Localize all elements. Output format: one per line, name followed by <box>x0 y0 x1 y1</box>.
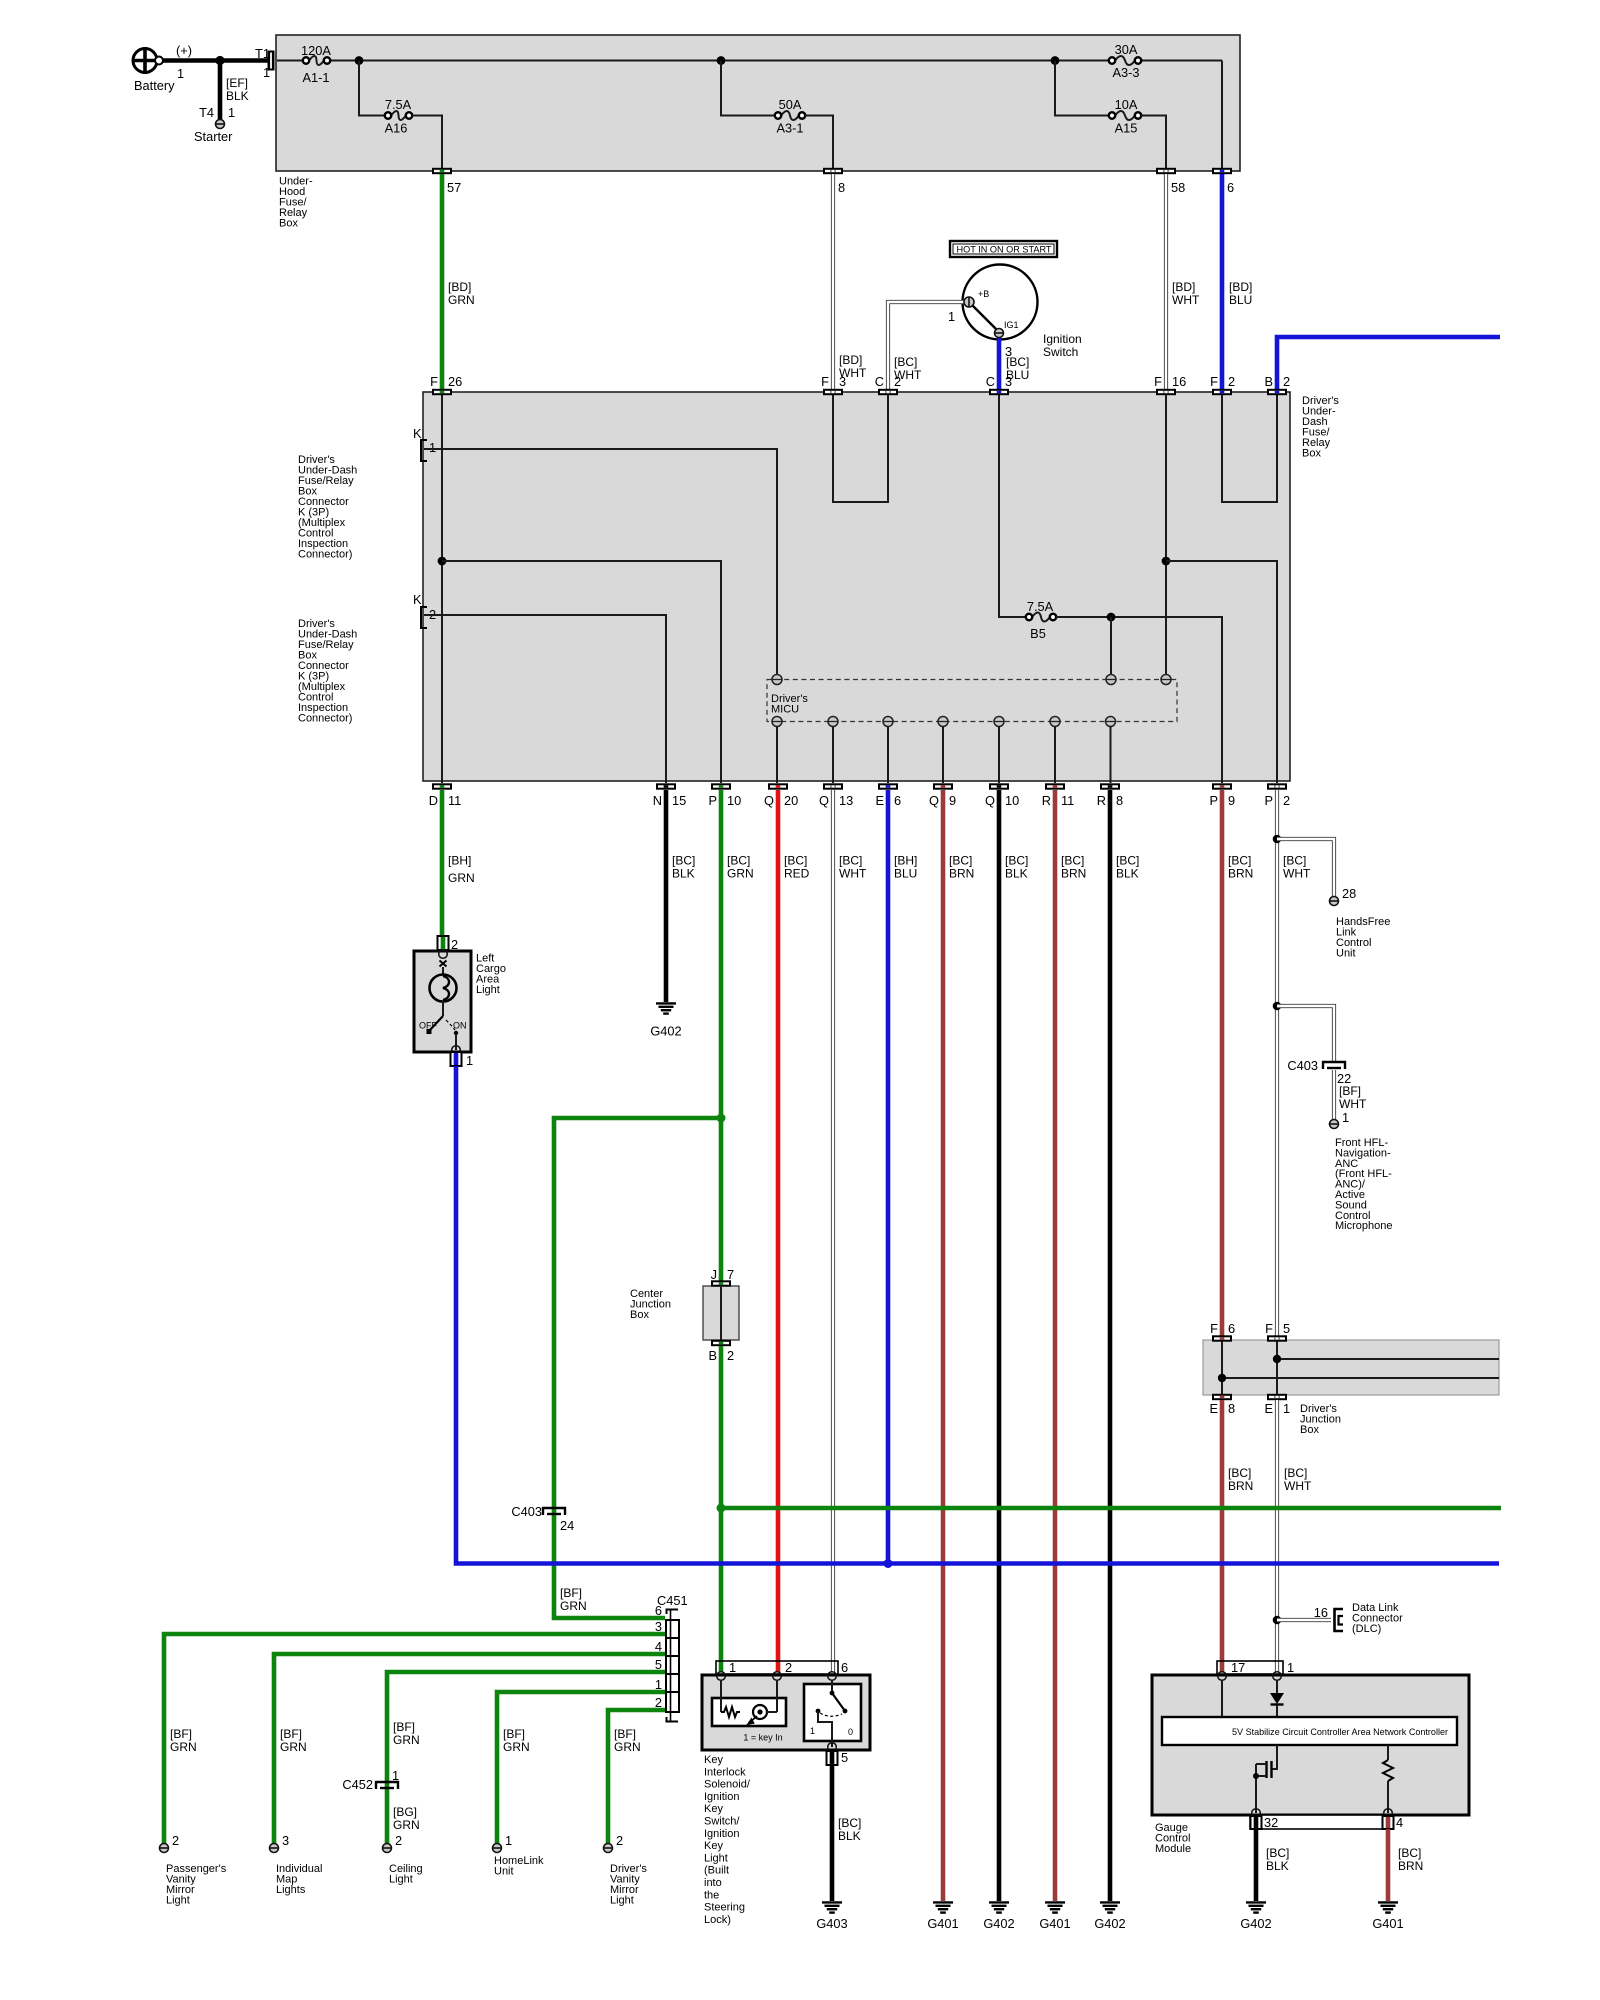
connector cargo pin 2 <box>438 936 459 952</box>
connector pin F 3 <box>821 374 846 395</box>
svg-text:GRN: GRN <box>393 1818 420 1832</box>
wire +B to C2 [BC] WHT <box>888 302 965 389</box>
svg-text:Microphone: Microphone <box>1335 1220 1392 1232</box>
svg-text:WHT: WHT <box>1284 1479 1312 1493</box>
svg-text:9: 9 <box>1228 793 1235 808</box>
svg-text:Box: Box <box>1300 1424 1319 1436</box>
wire IG1 to C3 [BC] BLU <box>999 336 1029 389</box>
svg-text:WHT: WHT <box>1172 293 1200 307</box>
svg-text:32: 32 <box>1264 1815 1278 1830</box>
svg-text:2: 2 <box>1228 374 1235 389</box>
gauge pin circles bottom <box>1252 1809 1393 1818</box>
connector pin Q 9 <box>929 783 956 808</box>
svg-text:2: 2 <box>451 937 458 952</box>
wire C3 to fuse B5 <box>999 395 1026 617</box>
svg-text:GRN: GRN <box>727 867 754 881</box>
svg-text:6: 6 <box>894 793 901 808</box>
connector C451 <box>655 1593 688 1722</box>
svg-text:5: 5 <box>655 1657 662 1672</box>
pin 58 <box>1156 168 1185 195</box>
svg-text:the: the <box>704 1889 719 1901</box>
wire K2 to N15 <box>424 615 666 783</box>
wire Q9 to G401 [BC] BRN <box>943 790 974 1901</box>
svg-text:Key: Key <box>704 1840 723 1852</box>
svg-text:[BF]: [BF] <box>1339 1084 1361 1098</box>
svg-text:MICU: MICU <box>771 704 799 716</box>
svg-text:Unit: Unit <box>494 1866 514 1878</box>
svg-text:10: 10 <box>1005 793 1019 808</box>
svg-text:F: F <box>1154 374 1162 389</box>
ground G403 <box>816 1902 847 1931</box>
svg-text:GRN: GRN <box>280 1740 307 1754</box>
wire C403 to microphone [BF] WHT <box>1334 1070 1367 1125</box>
svg-text:GRN: GRN <box>503 1740 530 1754</box>
terminal homelink pin 1 <box>493 1844 502 1853</box>
svg-text:Box: Box <box>279 218 298 230</box>
svg-text:Key: Key <box>704 1803 723 1815</box>
svg-text:2: 2 <box>655 1695 662 1710</box>
connector K pin 2 <box>413 592 436 628</box>
junction P10 branch <box>717 1114 726 1123</box>
svg-text:[BF]: [BF] <box>170 1727 192 1741</box>
svg-text:BLK: BLK <box>1005 867 1028 881</box>
key interlock solenoid/lamp <box>712 1680 786 1743</box>
svg-text:1: 1 <box>948 309 955 324</box>
transistor Q1 (MOSFET) <box>1253 1745 1277 1813</box>
svg-text:WHT: WHT <box>839 867 867 881</box>
svg-text:13: 13 <box>839 793 853 808</box>
svg-text:WHT: WHT <box>1339 1097 1367 1111</box>
svg-text:G401: G401 <box>1039 1916 1070 1931</box>
svg-text:GRN: GRN <box>448 871 475 885</box>
svg-text:G403: G403 <box>816 1916 847 1931</box>
wire branch to fuse A16 <box>359 61 385 116</box>
svg-text:5: 5 <box>841 1750 848 1765</box>
svg-text:Light: Light <box>166 1895 190 1907</box>
svg-text:B: B <box>708 1348 717 1363</box>
svg-text:1: 1 <box>228 105 235 120</box>
svg-text:Battery: Battery <box>134 78 175 93</box>
svg-text:[BF]: [BF] <box>614 1727 636 1741</box>
svg-text:Switch/: Switch/ <box>704 1816 740 1828</box>
wire main bus in under-hood box <box>277 61 1222 169</box>
MICU pins bottom <box>772 717 1116 727</box>
gauge connector row bottom <box>1250 1815 1391 1829</box>
wire fuse A3-1 to pin 8 <box>805 116 833 169</box>
connector pin B 2 <box>1264 374 1290 395</box>
wire Q13 to key interlock [BC] WHT <box>833 790 867 1672</box>
gauge pin circles top <box>1218 1672 1282 1681</box>
connector pin C 2 <box>875 374 901 395</box>
svg-text:GRN: GRN <box>170 1740 197 1754</box>
key interlock pin circles <box>717 1672 837 1681</box>
connector C452 pin 1 <box>342 1768 399 1792</box>
left cargo area light <box>414 951 506 1052</box>
wire C452 to ceiling light [BG] GRN <box>393 1805 420 1848</box>
svg-text:[BC]: [BC] <box>839 854 862 868</box>
junction F16/P2 <box>1162 557 1171 566</box>
svg-text:1: 1 <box>429 440 436 455</box>
svg-text:[BC]: [BC] <box>1006 355 1029 369</box>
svg-text:WHT: WHT <box>1283 867 1311 881</box>
svg-text:[BC]: [BC] <box>1061 854 1084 868</box>
connector pin E 6 <box>875 783 901 808</box>
ground G401 (R11) <box>1039 1902 1070 1931</box>
junction P2/handsfree <box>1273 835 1282 844</box>
svg-text:1: 1 <box>1342 1110 1349 1125</box>
svg-text:3: 3 <box>282 1833 289 1848</box>
handsfree link control unit <box>1336 916 1390 960</box>
wire pin 32 to G402 [BC] BLK <box>1256 1829 1289 1901</box>
connector pin R 11 <box>1042 783 1075 808</box>
wire D11 to cargo light [BH] GRN <box>442 790 475 936</box>
wire fuse A15 to pin 58 <box>1141 116 1166 169</box>
svg-text:F: F <box>1210 374 1218 389</box>
junction F6 bus <box>1218 1374 1226 1382</box>
svg-text:1: 1 <box>392 1768 399 1783</box>
svg-text:50A: 50A <box>779 97 802 112</box>
svg-text:BLK: BLK <box>1116 867 1139 881</box>
svg-text:120A: 120A <box>301 43 331 58</box>
connector gauge pin 32 <box>1251 1815 1279 1830</box>
svg-text:[BG]: [BG] <box>393 1805 417 1819</box>
5V stabilize circuit block <box>1162 1717 1457 1745</box>
svg-text:6: 6 <box>655 1603 662 1618</box>
svg-text:2: 2 <box>1283 793 1290 808</box>
svg-text:into: into <box>704 1877 722 1889</box>
svg-text:7.5A: 7.5A <box>385 97 412 112</box>
svg-text:2: 2 <box>785 1660 792 1675</box>
svg-text:Light: Light <box>389 1874 413 1886</box>
wire branch to handsfree unit <box>1277 839 1334 896</box>
svg-text:BRN: BRN <box>1228 867 1253 881</box>
svg-text:3: 3 <box>655 1619 662 1634</box>
svg-text:K: K <box>413 426 422 441</box>
svg-text:8: 8 <box>1228 1401 1235 1416</box>
svg-text:[BC]: [BC] <box>1266 1846 1289 1860</box>
svg-text:[BC]: [BC] <box>1005 854 1028 868</box>
wire B2 feed [BD] BLU <box>1277 337 1500 389</box>
fuse 7.5A A16 <box>385 97 413 136</box>
svg-text:24: 24 <box>560 1518 574 1533</box>
svg-text:[BC]: [BC] <box>1284 1466 1307 1480</box>
svg-text:T1: T1 <box>255 46 270 61</box>
svg-text:Box: Box <box>630 1309 649 1321</box>
wire dome green bus [BF] GRN <box>721 1506 1501 1511</box>
cargo light bulb <box>430 950 457 1016</box>
junction E1/DLC <box>1273 1616 1282 1625</box>
homelink unit <box>494 1855 544 1878</box>
svg-text:G402: G402 <box>1240 1916 1271 1931</box>
pin 8 <box>823 168 845 195</box>
svg-text:[BD]: [BD] <box>1172 280 1195 294</box>
wire fuse B5 to P9 <box>1056 617 1222 783</box>
wire F16 to MICU <box>1165 395 1167 675</box>
svg-text:(+): (+) <box>176 43 192 58</box>
center junction box <box>630 1286 739 1340</box>
svg-text:11: 11 <box>448 793 461 808</box>
svg-text:Steering: Steering <box>704 1902 745 1914</box>
connector pin Q 20 <box>764 783 798 808</box>
wire F5 to E1 inside <box>1276 1341 1278 1394</box>
svg-text:[BC]: [BC] <box>894 355 917 369</box>
svg-text:1: 1 <box>1283 1401 1290 1416</box>
svg-text:16: 16 <box>1172 374 1186 389</box>
svg-text:(DLC): (DLC) <box>1352 1623 1381 1635</box>
svg-text:0: 0 <box>848 1727 853 1737</box>
fuse 120A A1-1 <box>301 43 331 85</box>
svg-text:B: B <box>1264 374 1273 389</box>
svg-text:[BD]: [BD] <box>839 353 862 367</box>
svg-text:BRN: BRN <box>1398 1859 1423 1873</box>
svg-text:1 = key In: 1 = key In <box>743 1733 782 1743</box>
wire Q20 to key interlock [BC] RED <box>778 790 810 1672</box>
svg-text:IG1: IG1 <box>1004 320 1019 330</box>
svg-text:OFF: OFF <box>419 1021 437 1031</box>
svg-text:Module: Module <box>1155 1843 1191 1855</box>
junction node to A16 <box>355 56 364 65</box>
svg-text:T4: T4 <box>199 105 214 120</box>
wire branch to C403 24 [BF] GRN <box>554 1118 721 1618</box>
svg-text:F: F <box>1210 1321 1218 1336</box>
svg-text:30A: 30A <box>1115 42 1138 57</box>
connector pin B 2 <box>708 1340 734 1363</box>
svg-text:[BF]: [BF] <box>503 1727 525 1741</box>
svg-text:G402: G402 <box>983 1916 1014 1931</box>
connector pin P 10 <box>708 783 741 808</box>
connector C403 pin 22 <box>1287 1058 1351 1086</box>
svg-text:Q: Q <box>929 793 939 808</box>
svg-text:[BC]: [BC] <box>1116 854 1139 868</box>
wire F2 to B2 <box>1222 395 1277 502</box>
svg-text:Interlock: Interlock <box>704 1766 746 1778</box>
wire branch to fuse A3-1 <box>721 61 775 116</box>
wire F26 to D11 <box>441 395 443 783</box>
wire fuse A16 to pin 57 <box>412 116 442 169</box>
svg-text:1: 1 <box>263 65 270 80</box>
terminal IG1 <box>995 329 1004 338</box>
ignition switch <box>963 265 1082 360</box>
wire junction box bus 1 <box>1277 1358 1499 1360</box>
terminal +B <box>964 297 974 307</box>
svg-text:2: 2 <box>727 1348 734 1363</box>
svg-text:G401: G401 <box>1372 1916 1403 1931</box>
wire K1 to MICU <box>424 449 777 675</box>
svg-text:+B: +B <box>978 289 989 299</box>
svg-text:2: 2 <box>172 1833 179 1848</box>
connector pin F 2 <box>1210 374 1235 395</box>
gauge control module <box>1152 1675 1469 1855</box>
svg-text:BLK: BLK <box>838 1829 861 1843</box>
svg-text:1: 1 <box>505 1833 512 1848</box>
svg-text:GRN: GRN <box>560 1599 587 1613</box>
connector K (3P) label 2 <box>298 618 357 725</box>
svg-text:26: 26 <box>448 374 462 389</box>
svg-text:9: 9 <box>949 793 956 808</box>
key interlock solenoid/ignition key switch unit <box>702 1675 870 1750</box>
ground G402 (R8) <box>1094 1902 1125 1931</box>
connector pin J 7 <box>711 1267 735 1287</box>
svg-text:E: E <box>1209 1401 1218 1416</box>
svg-text:ON: ON <box>453 1021 467 1031</box>
ceiling light <box>389 1863 423 1886</box>
ground G402 (gauge) <box>1240 1902 1271 1931</box>
gauge connector row top <box>1217 1660 1294 1675</box>
svg-text:C403: C403 <box>1287 1058 1318 1073</box>
wire R8 to G402 [BC] BLK <box>1110 790 1139 1901</box>
key interlock ignition switch contacts <box>804 1680 861 1751</box>
svg-text:[BD]: [BD] <box>1229 280 1252 294</box>
svg-text:HOT IN ON OR START: HOT IN ON OR START <box>957 245 1052 256</box>
wire N15 to G402 [BC] BLK <box>666 790 695 1002</box>
connector pin E 8 <box>1209 1394 1235 1416</box>
svg-text:10A: 10A <box>1115 97 1138 112</box>
junction B5/MICU <box>1107 613 1116 622</box>
pin 57 <box>432 168 461 195</box>
fuse 50A A3-1 <box>775 97 805 136</box>
diode D1 <box>1270 1680 1284 1717</box>
svg-text:6: 6 <box>1227 180 1234 195</box>
svg-text:8: 8 <box>1116 793 1123 808</box>
wire pin 17 to 5V rect <box>1221 1680 1223 1717</box>
svg-text:A15: A15 <box>1115 121 1138 136</box>
svg-text:G402: G402 <box>1094 1916 1125 1931</box>
connector pin P 9 <box>1209 783 1235 808</box>
wire E1 to gauge pin 1 [BC] WHT <box>1277 1400 1312 1672</box>
svg-text:[BC]: [BC] <box>1228 854 1251 868</box>
svg-text:1: 1 <box>177 66 184 81</box>
connector pin F 6 <box>1210 1321 1235 1342</box>
svg-text:J: J <box>711 1267 717 1282</box>
svg-text:Key: Key <box>704 1754 723 1766</box>
svg-text:E: E <box>875 793 884 808</box>
junction E6/blue bus <box>884 1559 893 1568</box>
svg-text:[BC]: [BC] <box>838 1816 861 1830</box>
svg-text:F: F <box>821 374 829 389</box>
svg-text:A3-3: A3-3 <box>1112 65 1139 80</box>
junction P10/green bus <box>717 1504 726 1513</box>
wire pin 4 to G401 [BC] BRN <box>1388 1829 1423 1901</box>
connector K (3P) label 1 <box>298 454 357 561</box>
svg-text:2: 2 <box>894 374 901 389</box>
fuse 7.5A B5 <box>1026 599 1056 641</box>
connector pin Q 10 <box>985 783 1019 808</box>
svg-text:[BF]: [BF] <box>393 1720 415 1734</box>
svg-text:7: 7 <box>727 1267 734 1282</box>
svg-text:G401: G401 <box>927 1916 958 1931</box>
individual map lights <box>276 1863 322 1896</box>
svg-text:G402: G402 <box>650 1024 681 1039</box>
svg-text:Q: Q <box>819 793 829 808</box>
svg-text:A3-1: A3-1 <box>776 121 803 136</box>
svg-text:2: 2 <box>395 1833 402 1848</box>
connector pin E 1 <box>1264 1394 1290 1416</box>
svg-text:10: 10 <box>727 793 741 808</box>
junction P2/C403 <box>1273 1002 1282 1011</box>
connector T1 pin 1 <box>255 46 275 80</box>
wire F3 to C2 <box>833 395 888 502</box>
fuse 10A A15 <box>1109 97 1141 136</box>
wire to starter [EF] BLK <box>199 61 249 121</box>
svg-text:BLK: BLK <box>672 867 695 881</box>
svg-text:1: 1 <box>466 1053 473 1068</box>
hot in on or start label <box>950 241 1057 257</box>
terminal passenger vanity pin 2 <box>160 1844 169 1853</box>
driver's vanity mirror light <box>610 1863 647 1907</box>
svg-text:F: F <box>1265 1321 1273 1336</box>
svg-text:7.5A: 7.5A <box>1027 599 1054 614</box>
svg-text:Ignition: Ignition <box>704 1828 739 1840</box>
svg-text:[BH]: [BH] <box>894 854 917 868</box>
wire P10 to center junction box [BC] GRN <box>721 790 754 1281</box>
driver's under-dash fuse/relay box <box>423 392 1339 781</box>
terminal ceiling light pin 2 <box>383 1844 392 1853</box>
wire 6 to F2 [BD] BLU <box>1222 174 1252 389</box>
starter terminal <box>194 120 233 145</box>
svg-text:[BC]: [BC] <box>1228 1466 1251 1480</box>
svg-text:1: 1 <box>729 1660 736 1675</box>
wire 58 to F16 [BD] WHT <box>1166 174 1200 389</box>
svg-text:Connector): Connector) <box>298 549 352 561</box>
terminal handsfree pin 28 <box>1330 886 1357 906</box>
svg-text:Ignition: Ignition <box>1043 332 1082 346</box>
terminal map lights pin 3 <box>270 1844 279 1853</box>
wire junction to MICU <box>1110 617 1112 675</box>
svg-text:N: N <box>653 793 662 808</box>
svg-text:[BH]: [BH] <box>448 854 471 868</box>
svg-text:[BC]: [BC] <box>784 854 807 868</box>
svg-text:8: 8 <box>838 180 845 195</box>
svg-text:28: 28 <box>1342 886 1356 901</box>
key interlock connector row <box>716 1660 848 1675</box>
svg-text:[BC]: [BC] <box>727 854 750 868</box>
wire branch to DLC <box>1277 1605 1331 1620</box>
wire 57 to F26 [BD] GRN <box>442 174 475 389</box>
svg-text:Switch: Switch <box>1043 345 1078 359</box>
pin 6 <box>1212 168 1234 195</box>
svg-text:[BC]: [BC] <box>672 854 695 868</box>
MICU pins top <box>772 675 1171 685</box>
wire C451-1 to homelink unit [BF] GRN <box>497 1692 665 1848</box>
front HFL-navigation-ANC microphone <box>1335 1137 1392 1232</box>
wire P9 to junction box F6 [BC] BRN <box>1222 790 1253 1336</box>
svg-text:4: 4 <box>1396 1815 1403 1830</box>
svg-text:1: 1 <box>655 1677 662 1692</box>
svg-text:1: 1 <box>1287 1660 1294 1675</box>
ground G402 (Q10) <box>983 1902 1014 1931</box>
svg-text:3: 3 <box>1005 374 1012 389</box>
driver's junction box <box>1203 1340 1499 1436</box>
connector pin F 5 <box>1265 1321 1290 1342</box>
svg-text:E: E <box>1264 1401 1273 1416</box>
svg-text:20: 20 <box>784 793 798 808</box>
wire Q10 to G402 [BC] BLK <box>999 790 1028 1901</box>
resistor R1 <box>1383 1745 1393 1813</box>
wire blue bus from cargo light <box>456 1066 1499 1564</box>
terminal driver's vanity pin 2 <box>604 1844 613 1853</box>
svg-text:Lights: Lights <box>276 1884 306 1896</box>
svg-text:Light: Light <box>610 1895 634 1907</box>
connector pin C 3 <box>986 374 1012 395</box>
svg-text:57: 57 <box>447 180 461 195</box>
svg-text:[BC]: [BC] <box>949 854 972 868</box>
connector key interlock pin 5 <box>827 1750 849 1765</box>
svg-text:16: 16 <box>1314 1605 1328 1620</box>
svg-text:Light: Light <box>476 984 500 996</box>
connector pin D 11 <box>429 783 462 808</box>
svg-text:3: 3 <box>839 374 846 389</box>
svg-text:C452: C452 <box>342 1777 373 1792</box>
